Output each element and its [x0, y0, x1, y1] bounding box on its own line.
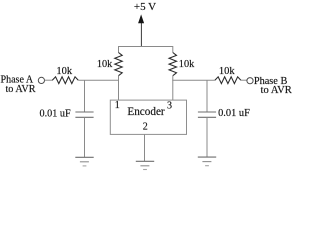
- wire: capacitor C1 to ground: [84, 117, 86, 157]
- wire: node B to right series resistor: [172, 79, 215, 81]
- svg-text:+5 V: +5 V: [134, 1, 156, 13]
- svg-text:0.01 uF: 0.01 uF: [218, 108, 250, 119]
- power arrowhead: [138, 14, 144, 23]
- svg-text:1: 1: [115, 100, 120, 111]
- wire: Phase A terminal to series resistor: [45, 79, 53, 81]
- wire: right series resistor to Phase B terminal: [241, 79, 247, 81]
- svg-text:10k: 10k: [219, 66, 236, 77]
- wire: rail to right pull-up resistor: [172, 46, 174, 53]
- resistor 10k series right (horizontal): [215, 77, 241, 84]
- wire: left pull-up to encoder pin 1: [118, 76, 120, 100]
- resistor 10k series left (horizontal): [52, 77, 78, 84]
- capacitor C2 0.01 uF plates: [198, 111, 216, 113]
- wire: left series resistor to node A: [78, 79, 119, 81]
- svg-text:2: 2: [143, 122, 148, 133]
- resistor 10k left pull-up (vertical): [115, 53, 122, 76]
- ground (left): [75, 157, 93, 166]
- resistor 10k right pull-up (vertical): [169, 53, 176, 76]
- svg-text:10k: 10k: [56, 66, 73, 77]
- svg-text:to AVR: to AVR: [261, 85, 293, 96]
- ground (center, pin 2): [136, 161, 154, 169]
- svg-text:Encoder: Encoder: [127, 106, 165, 118]
- wire: encoder pin 2 to ground: [144, 134, 146, 161]
- svg-text:3: 3: [167, 101, 172, 112]
- wire: capacitor C2 to ground: [206, 117, 208, 157]
- encoder box U1: [110, 100, 186, 134]
- ground (right): [198, 157, 216, 166]
- svg-text:to AVR: to AVR: [5, 84, 35, 95]
- wire: node B down to capacitor C2: [206, 80, 208, 112]
- capacitor C1 0.01 uF plates: [75, 111, 93, 113]
- wire: node A down to capacitor C1: [84, 80, 86, 112]
- svg-text:0.01 uF: 0.01 uF: [40, 109, 71, 120]
- terminal circle Phase B: [247, 78, 253, 84]
- wire: rail to left pull-up resistor: [118, 46, 120, 53]
- power arrow stem: [140, 21, 142, 47]
- svg-text:10k: 10k: [97, 59, 113, 70]
- terminal circle Phase A: [38, 77, 44, 83]
- top rail wire: [119, 46, 173, 48]
- svg-text:10k: 10k: [179, 59, 195, 70]
- wire: right pull-up to encoder pin 3: [172, 76, 174, 100]
